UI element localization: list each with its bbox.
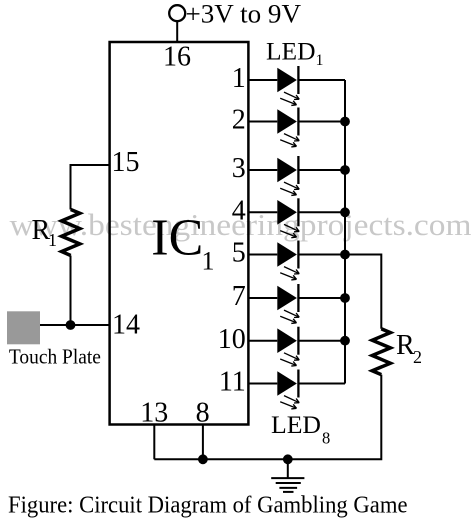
wire pin 3 lead to LED3 anode — [248, 169, 277, 171]
wire cathode bus — [344, 80, 346, 384]
LED LED8 — [277, 370, 299, 409]
svg-text:16: 16 — [163, 41, 191, 72]
LED1 label — [266, 38, 324, 69]
svg-text:3: 3 — [232, 153, 246, 184]
svg-text:5: 5 — [232, 238, 246, 269]
svg-text:Touch Plate: Touch Plate — [9, 344, 101, 368]
svg-text:8: 8 — [196, 397, 210, 428]
svg-text:1: 1 — [316, 52, 324, 69]
LED8 label — [271, 412, 330, 447]
svg-text:2: 2 — [413, 347, 422, 367]
wire pin 15 to R1 top — [71, 165, 110, 210]
wire LED5 cathode to bus — [298, 254, 345, 256]
svg-text:Figure: Circuit Diagram of Gam: Figure: Circuit Diagram of Gambling Game — [8, 492, 408, 518]
svg-text:11: 11 — [219, 367, 246, 398]
svg-text:LED: LED — [266, 38, 316, 65]
svg-text:4: 4 — [232, 196, 246, 227]
LED LED4 — [277, 198, 299, 237]
wire pin 13 stub — [153, 424, 155, 459]
svg-text:13: 13 — [140, 397, 168, 428]
junction node A (R1 / touch plate / pin 14) — [66, 320, 76, 330]
wire R1 bottom to node A — [70, 256, 72, 326]
wire pin 5 lead to LED5 anode — [248, 254, 277, 256]
wire bus to R2 top — [345, 255, 381, 329]
svg-text:IC: IC — [151, 210, 203, 267]
wire pin 4 lead to LED4 anode — [248, 211, 277, 213]
svg-text:10: 10 — [218, 324, 246, 355]
wire pin 7 lead to LED6 anode — [248, 297, 277, 299]
wire LED6 cathode to bus — [298, 297, 345, 299]
wire pin 8 stub — [202, 424, 204, 459]
svg-text:7: 7 — [232, 281, 246, 312]
LED LED5 — [277, 241, 299, 280]
wire touch plate to pin 14 — [40, 324, 110, 326]
wire pin 2 lead to LED2 anode — [248, 121, 277, 123]
resistor R1 — [62, 210, 80, 256]
LED LED2 — [277, 108, 299, 147]
wire LED1 cathode to bus — [298, 79, 345, 81]
LED LED1 — [277, 66, 299, 105]
svg-text:1: 1 — [232, 63, 246, 94]
R2 label — [396, 330, 422, 367]
junction ground tap / ground rail — [283, 454, 293, 464]
R1 label — [32, 215, 58, 250]
power terminal +3V to 9V — [169, 5, 185, 21]
ground — [271, 459, 304, 492]
wire LED2 cathode to bus — [298, 121, 345, 123]
svg-text:LED: LED — [271, 412, 321, 439]
svg-text:8: 8 — [322, 428, 330, 447]
junction LED7 cathode / bus — [340, 336, 350, 346]
svg-text:1: 1 — [48, 230, 57, 250]
junction LED4 cathode / bus — [340, 207, 350, 217]
LED LED7 — [277, 327, 299, 366]
resistor R2 — [372, 329, 390, 375]
wire pin 10 lead to LED7 anode — [248, 340, 277, 342]
svg-text:1: 1 — [202, 247, 215, 276]
touch plate — [7, 311, 40, 344]
junction LED3 cathode / bus — [340, 165, 350, 175]
wire LED4 cathode to bus — [298, 211, 345, 213]
wire pin 1 lead to LED1 anode — [248, 79, 277, 81]
svg-text:2: 2 — [232, 105, 246, 136]
svg-text:15: 15 — [112, 147, 140, 178]
LED LED6 — [277, 284, 299, 323]
IC IC1 body — [110, 42, 249, 425]
IC1 label — [151, 210, 214, 276]
svg-text:+3V to 9V: +3V to 9V — [186, 0, 302, 29]
junction LED2 cathode / bus — [340, 117, 350, 127]
svg-text:14: 14 — [112, 310, 140, 341]
wire LED3 cathode to bus — [298, 169, 345, 171]
wire pin 11 lead to LED8 anode — [248, 383, 277, 385]
LED LED3 — [277, 156, 299, 195]
junction pin 8 / ground rail — [198, 454, 208, 464]
wire LED7 cathode to bus — [298, 340, 345, 342]
wire power terminal to pin 16 — [176, 21, 178, 42]
wire LED8 cathode to bus — [298, 383, 345, 385]
wire R2 bottom to ground rail — [154, 375, 381, 460]
junction LED5 cathode / bus — [340, 250, 350, 260]
junction LED6 cathode / bus — [340, 293, 350, 303]
